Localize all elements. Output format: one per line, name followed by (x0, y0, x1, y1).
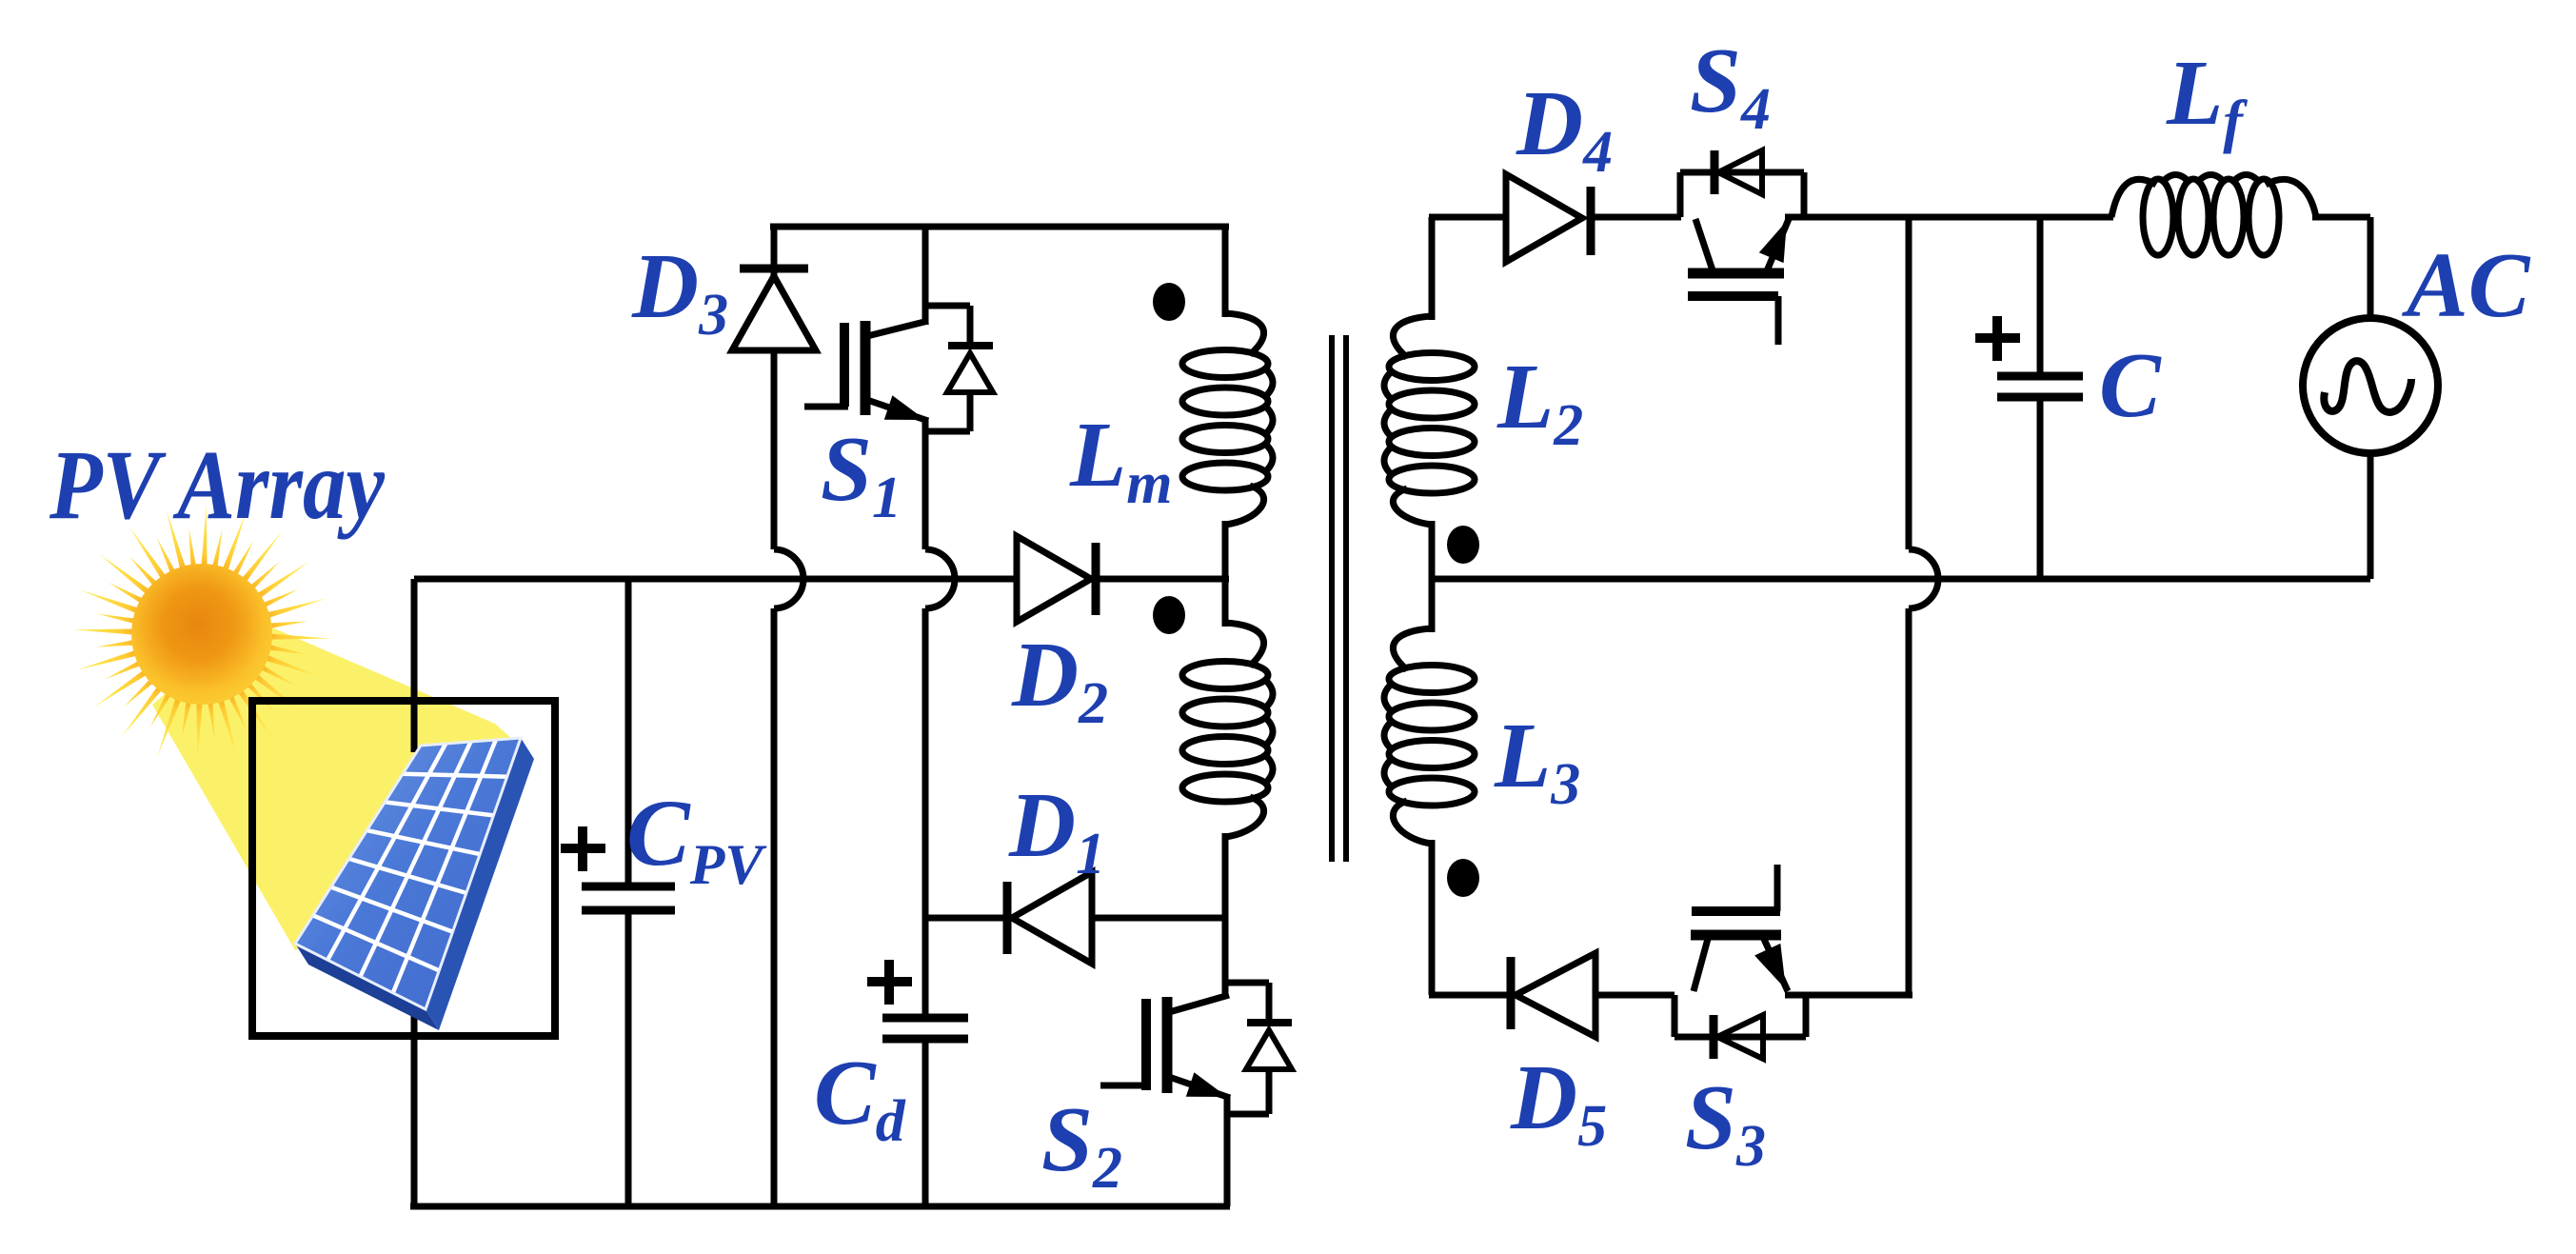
PV array box (252, 701, 555, 1036)
svg-text:S2: S2 (1041, 1088, 1122, 1201)
capacitor Cd (882, 918, 968, 1206)
svg-text:D4: D4 (1516, 72, 1613, 185)
svg-text:D1: D1 (1008, 774, 1105, 886)
svg-text:S3: S3 (1685, 1066, 1766, 1179)
svg-text:D2: D2 (1011, 624, 1108, 736)
wire secondary mid rail (1429, 576, 2370, 583)
svg-text:D5: D5 (1510, 1046, 1607, 1159)
svg-text:C: C (2099, 334, 2162, 436)
wire bottom rail (410, 1204, 1230, 1210)
svg-text:S1: S1 (821, 418, 902, 530)
wire S4 output vertical (1909, 217, 1938, 995)
svg-text:Cd: Cd (814, 1042, 906, 1154)
sun icon (72, 505, 331, 764)
diode S3 antiparallel (1674, 995, 1806, 1059)
diode D1 (925, 872, 1227, 964)
inductor Lm primary winding (1182, 227, 1273, 581)
wire hop D3 over bus (774, 549, 803, 1206)
svg-text:L2: L2 (1496, 346, 1583, 458)
svg-text:Lf: Lf (2166, 42, 2248, 154)
svg-text:CPV: CPV (626, 780, 767, 896)
diode S2 antiparallel (1222, 983, 1292, 1114)
wire middle bus right of D2 (1093, 576, 1229, 583)
diode D5 (1511, 953, 1674, 1037)
dot L2 polarity (1447, 526, 1479, 564)
PV panel (295, 738, 534, 1030)
svg-text:L3: L3 (1494, 705, 1580, 817)
inductor L2 secondary winding (1384, 217, 1475, 581)
plus sign C (1975, 316, 2020, 361)
dot winding 2 polarity (1153, 596, 1185, 634)
transistor S1 (804, 227, 928, 549)
inductor Lf (2111, 175, 2316, 256)
diode D3 (732, 227, 816, 549)
inductor primary winding 2 (1182, 577, 1273, 997)
svg-text:PV Array: PV Array (49, 430, 386, 540)
wire secondary top rail left (1429, 214, 1508, 221)
dot L3 polarity (1447, 859, 1479, 897)
diode D4 (1506, 174, 1681, 262)
plus sign C_PV (561, 826, 605, 871)
wire hop S1 over bus (925, 549, 955, 918)
AC source (2303, 318, 2438, 579)
wire primary top rail (770, 224, 1229, 230)
svg-text:S4: S4 (1690, 30, 1771, 142)
sun beam (152, 619, 530, 950)
dot Lm polarity (1153, 283, 1185, 321)
transistor S3 (1691, 865, 1912, 995)
wire PV bottom lead (411, 981, 418, 1206)
transistor S4 (1680, 172, 2113, 345)
plus sign Cd (867, 960, 912, 1005)
wire PV top lead (411, 579, 418, 752)
diode D2 (1017, 536, 1096, 622)
transformer core (1329, 335, 1349, 862)
diode S4 antiparallel (1714, 150, 1762, 194)
svg-text:AC: AC (2401, 234, 2531, 336)
diode S1 antiparallel (922, 306, 993, 431)
capacitor C_PV (582, 579, 675, 1206)
wire middle bus left (414, 576, 1019, 583)
wire Lf to AC corner (2312, 217, 2370, 320)
svg-text:D3: D3 (631, 235, 728, 348)
inductor L3 secondary winding (1384, 577, 1475, 995)
capacitor C (1997, 217, 2083, 579)
transistor S2 (1100, 995, 1230, 1206)
svg-text:Lm: Lm (1069, 404, 1173, 516)
wire L3 to D5 (1429, 992, 1508, 999)
